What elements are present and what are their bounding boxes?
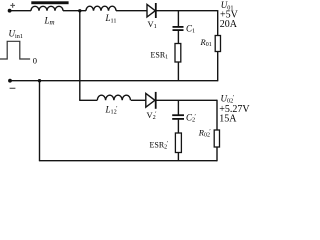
svg-text:C2′: C2′ (186, 113, 197, 124)
source Uin1 waveform (0, 41, 30, 59)
wire R02' branch lower (216, 147, 218, 161)
wire top rail left (10, 10, 31, 12)
svg-text:ESR2′: ESR2′ (150, 140, 169, 151)
wire R01 branch upper (217, 10, 219, 35)
core bar over Lm (31, 1, 68, 4)
wire left drop to bottom rail (39, 81, 41, 161)
node A junction dot (78, 9, 81, 12)
resistor R02' box (214, 130, 219, 147)
node + input terminal dot (8, 9, 12, 13)
wire R01 branch lower (217, 52, 219, 82)
svg-text:0: 0 (33, 56, 37, 66)
inductor L12' winding (97, 95, 130, 100)
diode V1 cathode bar (155, 3, 157, 18)
wire R02' branch upper (216, 100, 218, 130)
- polarity mark (10, 87, 16, 89)
diode V2' triangle (146, 93, 155, 107)
+ polarity mark (10, 3, 15, 8)
node minus-rail / bottom-rail junction dot (38, 79, 41, 82)
wire V2' to right corner (156, 99, 218, 101)
inductor Lm winding (31, 6, 63, 10)
resistor ESR1 box (175, 44, 181, 63)
wire minus rail (10, 80, 218, 82)
diode V2' cathode bar (155, 92, 157, 109)
capacitor C2' bottom lead (177, 120, 179, 133)
svg-text:15A: 15A (219, 113, 237, 124)
resistor ESR2' box (175, 133, 181, 153)
capacitor C1 bottom lead (177, 31, 179, 44)
inductor L11 winding (86, 6, 116, 10)
wire L12' to V2' (131, 99, 146, 101)
svg-text:20A: 20A (220, 19, 238, 30)
diode V1 triangle (147, 4, 155, 17)
resistor R01 box (215, 36, 220, 52)
capacitor C1 top lead (177, 11, 179, 27)
svg-text:V2′: V2′ (147, 110, 158, 121)
node - input terminal dot (8, 79, 12, 83)
wire lower branch horizontal to L12' (79, 99, 97, 101)
capacitor C2' top lead (177, 100, 179, 114)
capacitor C2' plates (172, 114, 184, 116)
wire V1 to top-right corner (156, 10, 218, 12)
wire bottom rail (39, 160, 217, 162)
wire L11 to V1 (116, 10, 147, 12)
wire ESR1 bottom (177, 62, 179, 81)
wire node A to L11 (63, 10, 86, 12)
wire node A vertical drop (79, 11, 81, 101)
capacitor C1 plates (173, 26, 184, 28)
wire ESR2' bottom (177, 153, 179, 161)
